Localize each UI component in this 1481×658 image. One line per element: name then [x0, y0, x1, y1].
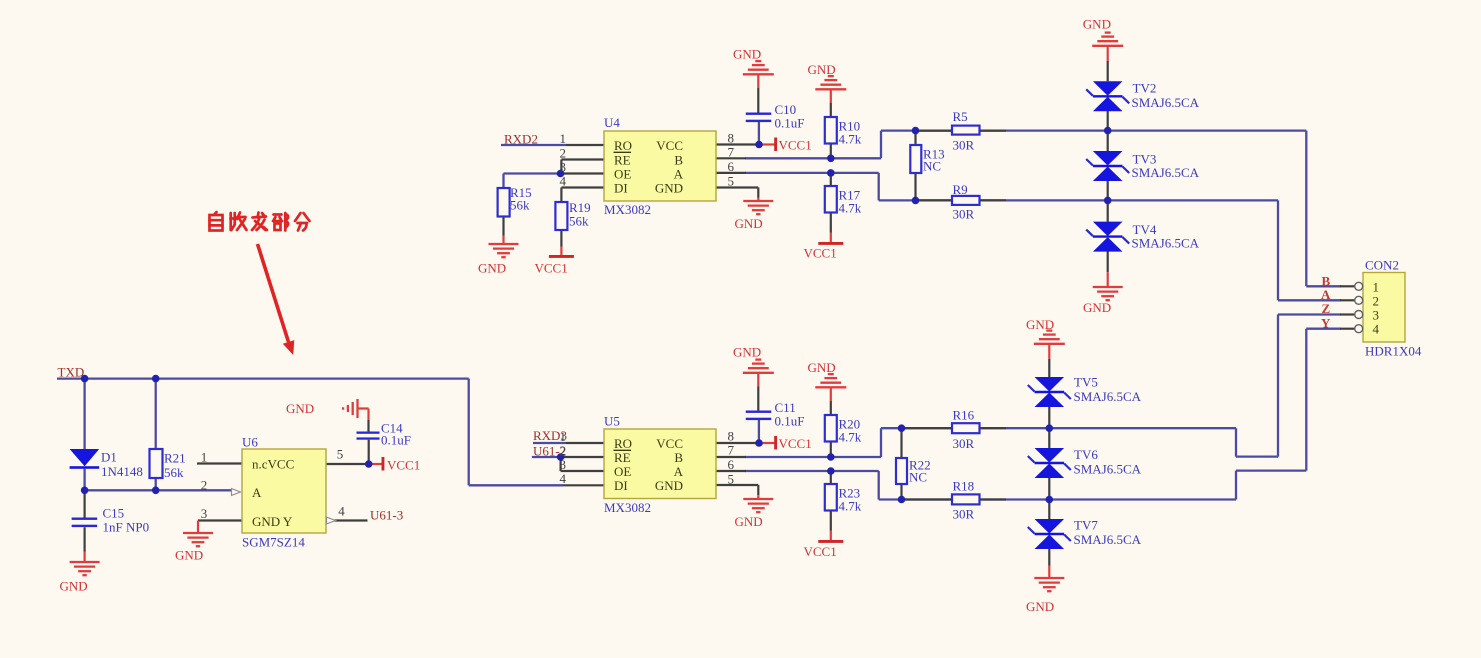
svg-text:TV7: TV7: [1074, 518, 1098, 533]
svg-text:2: 2: [1373, 294, 1380, 309]
svg-text:R18: R18: [953, 479, 975, 494]
svg-text:GND: GND: [655, 478, 683, 493]
svg-text:VCC1: VCC1: [804, 246, 837, 261]
svg-text:8: 8: [728, 429, 735, 444]
svg-text:GND: GND: [478, 261, 506, 276]
svg-text:TV2: TV2: [1133, 81, 1157, 96]
svg-text:R21: R21: [164, 451, 186, 466]
svg-text:3: 3: [1373, 308, 1380, 323]
svg-text:SMAJ6.5CA: SMAJ6.5CA: [1132, 236, 1200, 251]
svg-text:1: 1: [560, 131, 567, 146]
svg-text:TV6: TV6: [1074, 447, 1098, 462]
svg-text:4: 4: [560, 174, 567, 189]
svg-text:VCC1: VCC1: [387, 458, 420, 473]
svg-text:RE: RE: [614, 450, 631, 465]
svg-text:D1: D1: [101, 450, 117, 465]
svg-text:VCC1: VCC1: [779, 436, 812, 451]
svg-text:3: 3: [560, 160, 567, 175]
svg-text:30R: 30R: [953, 436, 975, 451]
svg-text:2: 2: [201, 478, 208, 493]
svg-text:GND: GND: [655, 181, 683, 196]
svg-text:VCC: VCC: [656, 436, 683, 451]
svg-text:MX3082: MX3082: [604, 500, 651, 515]
svg-text:7: 7: [728, 443, 735, 458]
svg-text:B: B: [674, 450, 683, 465]
svg-text:U6: U6: [242, 435, 258, 450]
svg-text:5: 5: [728, 174, 735, 189]
svg-text:n.cVCC: n.cVCC: [252, 457, 294, 472]
svg-text:RE: RE: [614, 153, 631, 168]
svg-text:GND: GND: [808, 360, 836, 375]
svg-text:3: 3: [201, 506, 208, 521]
svg-text:U5: U5: [604, 414, 620, 429]
svg-text:30R: 30R: [953, 207, 975, 222]
svg-text:A: A: [1321, 287, 1331, 302]
svg-text:4.7k: 4.7k: [839, 499, 862, 514]
svg-text:B: B: [674, 153, 683, 168]
svg-text:4.7k: 4.7k: [839, 201, 862, 216]
svg-text:4: 4: [1373, 322, 1380, 337]
svg-text:2: 2: [560, 443, 567, 458]
svg-text:5: 5: [337, 447, 344, 462]
svg-text:HDR1X04: HDR1X04: [1365, 344, 1422, 359]
svg-text:TXD: TXD: [58, 365, 85, 380]
svg-text:A: A: [674, 167, 684, 182]
svg-text:RO: RO: [614, 436, 632, 451]
svg-text:DI: DI: [614, 181, 628, 196]
svg-text:GND: GND: [1083, 300, 1111, 315]
svg-text:Z: Z: [1322, 301, 1331, 316]
svg-text:U61-3: U61-3: [370, 508, 403, 523]
svg-text:GND: GND: [1083, 17, 1111, 32]
svg-text:6: 6: [728, 457, 735, 472]
svg-text:VCC: VCC: [656, 138, 683, 153]
svg-text:0.1uF: 0.1uF: [775, 414, 805, 429]
svg-text:5: 5: [728, 472, 735, 487]
svg-text:56k: 56k: [569, 214, 589, 229]
svg-text:GND: GND: [733, 47, 761, 62]
svg-text:1: 1: [560, 429, 567, 444]
svg-text:SMAJ6.5CA: SMAJ6.5CA: [1074, 532, 1142, 547]
svg-text:1: 1: [1373, 280, 1380, 295]
svg-text:GND: GND: [286, 401, 314, 416]
svg-text:U4: U4: [604, 115, 620, 130]
svg-text:SMAJ6.5CA: SMAJ6.5CA: [1132, 165, 1200, 180]
svg-text:4.7k: 4.7k: [839, 132, 862, 147]
svg-text:VCC1: VCC1: [804, 544, 837, 559]
svg-text:2: 2: [560, 146, 567, 161]
svg-text:OE: OE: [614, 167, 631, 182]
svg-text:8: 8: [728, 131, 735, 146]
svg-text:GND: GND: [735, 216, 763, 231]
svg-text:R9: R9: [953, 182, 968, 197]
svg-text:GND: GND: [60, 579, 88, 594]
svg-text:Y: Y: [1321, 316, 1331, 331]
svg-text:GND Y: GND Y: [252, 514, 293, 529]
svg-text:SGM7SZ14: SGM7SZ14: [242, 535, 305, 550]
svg-text:SMAJ6.5CA: SMAJ6.5CA: [1132, 95, 1200, 110]
svg-text:3: 3: [560, 457, 567, 472]
svg-text:56k: 56k: [510, 198, 530, 213]
svg-text:1N4148: 1N4148: [101, 464, 143, 479]
svg-text:A: A: [674, 464, 684, 479]
svg-text:1: 1: [201, 450, 208, 465]
svg-text:RO: RO: [614, 138, 632, 153]
svg-text:DI: DI: [614, 478, 628, 493]
svg-text:GND: GND: [175, 548, 203, 563]
svg-text:SMAJ6.5CA: SMAJ6.5CA: [1074, 462, 1142, 477]
svg-text:CON2: CON2: [1365, 258, 1399, 273]
svg-text:MX3082: MX3082: [604, 202, 651, 217]
svg-text:C15: C15: [103, 506, 125, 521]
svg-text:GND: GND: [733, 345, 761, 360]
svg-text:SMAJ6.5CA: SMAJ6.5CA: [1074, 389, 1142, 404]
svg-text:NC: NC: [909, 470, 927, 485]
svg-text:NC: NC: [923, 159, 941, 174]
svg-text:OE: OE: [614, 464, 631, 479]
svg-text:GND: GND: [1026, 317, 1054, 332]
svg-text:0.1uF: 0.1uF: [775, 116, 805, 131]
svg-text:56k: 56k: [164, 465, 184, 480]
svg-text:0.1uF: 0.1uF: [381, 433, 411, 448]
svg-text:RXD2: RXD2: [504, 132, 538, 147]
svg-text:1nF NP0: 1nF NP0: [103, 520, 150, 535]
svg-text:7: 7: [728, 145, 735, 160]
svg-text:GND: GND: [808, 62, 836, 77]
svg-text:VCC1: VCC1: [779, 138, 812, 153]
svg-text:A: A: [252, 485, 262, 500]
svg-text:4: 4: [560, 471, 567, 486]
svg-text:R5: R5: [953, 109, 968, 124]
svg-text:30R: 30R: [953, 507, 975, 522]
svg-text:6: 6: [728, 159, 735, 174]
svg-text:TV5: TV5: [1074, 375, 1098, 390]
svg-text:R16: R16: [953, 408, 975, 423]
svg-text:4: 4: [338, 504, 345, 519]
svg-text:GND: GND: [1026, 599, 1054, 614]
svg-text:30R: 30R: [953, 138, 975, 153]
svg-text:GND: GND: [735, 514, 763, 529]
svg-text:VCC1: VCC1: [535, 261, 568, 276]
svg-text:4.7k: 4.7k: [839, 430, 862, 445]
